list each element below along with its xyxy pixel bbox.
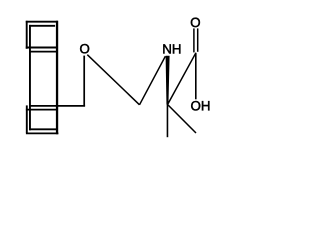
double bond C=O line right bbox=[197, 28, 199, 51]
ring bond top of middle rectangle bbox=[29, 51, 58, 53]
ring bond left outer vertical of top square bbox=[26, 21, 28, 49]
atom label O1 ether oxygen bbox=[80, 44, 89, 53]
ring bond right vertical full height bbox=[56, 21, 58, 135]
ring bond left inner vertical full height bbox=[29, 25, 31, 130]
ring bond bottom of middle rectangle and bond to CH2 bbox=[29, 105, 85, 107]
ring bond bottom of top square bbox=[26, 47, 58, 49]
ring bond bottom outer horizontal bbox=[26, 132, 59, 134]
ring bond top outer horizontal bbox=[26, 21, 58, 23]
bond CH2 up to ether oxygen bbox=[83, 56, 85, 106]
bond methyl vertical bbox=[166, 105, 168, 138]
ring bond left outer vertical of bottom square bbox=[26, 105, 28, 132]
double bond C=O line left bbox=[193, 28, 195, 52]
ring bond top of bottom square bbox=[26, 109, 58, 111]
atom label NH amine bbox=[163, 44, 180, 53]
bond quaternary carbon to carboxyl carbon bbox=[168, 53, 196, 105]
atom label O2 carbonyl oxygen bbox=[191, 18, 200, 27]
bond O1 to chain diagonal bbox=[87, 55, 139, 105]
ring bond bottom inner double-bond line bbox=[29, 128, 58, 130]
ring bond top inner double-bond line bbox=[29, 25, 55, 27]
bond carboxyl carbon to hydroxyl bbox=[195, 53, 197, 100]
bond chain valley to N bbox=[140, 56, 166, 105]
atom label O3 hydroxyl OH bbox=[191, 101, 209, 110]
bond methyl diagonal bbox=[167, 104, 196, 133]
wedge bond N to quaternary carbon bbox=[166, 56, 170, 105]
